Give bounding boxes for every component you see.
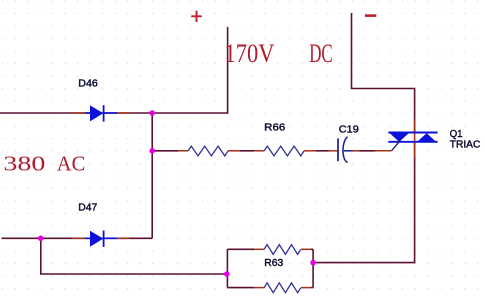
svg-text:R66: R66 <box>264 121 285 133</box>
svg-text:380: 380 <box>3 151 45 175</box>
pin lead triac middle (red) <box>414 133 416 142</box>
pin leads resistor R63 top (red) <box>254 248 264 250</box>
svg-text:TRIAC: TRIAC <box>450 138 481 150</box>
pin lead D46 anode (red) <box>72 112 85 114</box>
svg-text:D46: D46 <box>78 78 98 90</box>
diode D46 <box>85 105 117 121</box>
junction node E <box>310 260 316 266</box>
svg-text:C19: C19 <box>339 123 359 135</box>
wire: R63 right vertical <box>312 249 314 287</box>
wire: R63 bottom branch left stub <box>227 287 254 289</box>
pin lead D47 anode (red) <box>72 237 85 239</box>
resistor R63 bottom zigzag <box>264 283 301 293</box>
pin lead D47 cathode (red) <box>116 237 129 239</box>
pin lead D46 cathode (red) <box>116 112 129 114</box>
wire: AC input top row to corner under + <box>0 112 228 114</box>
wire: capacitor to triac gate corner <box>358 150 376 152</box>
wire: between series resistors <box>240 150 254 152</box>
svg-text:AC: AC <box>57 151 86 175</box>
+ terminal symbol <box>191 11 202 22</box>
capacitor C19 <box>338 137 353 163</box>
pin leads resistor R63 bottom (red) <box>254 287 264 289</box>
wire: R66 to capacitor C19 <box>316 150 330 152</box>
wire: node B down to D47 row <box>151 151 153 239</box>
resistor series (unlabeled zigzag) <box>188 146 228 156</box>
resistor R63 top zigzag <box>264 245 301 255</box>
pin leads resistor R66 (red) <box>254 150 264 152</box>
wire: R63 top branch left stub <box>227 248 254 250</box>
svg-text:D47: D47 <box>78 202 97 214</box>
wire: riser to + terminal <box>227 27 229 114</box>
junction node A <box>149 110 155 116</box>
wire: node C down then right to R63 left side <box>41 238 228 274</box>
wire: node A down to node B <box>151 113 153 151</box>
wire: R63 top branch right stub <box>311 248 313 250</box>
wire: node E right then up to triac MT1 <box>313 142 415 263</box>
junction node C <box>38 236 44 242</box>
pin leads series resistor 1 (red) <box>178 150 188 152</box>
wire: triac MT2 up, over, and up to - terminal <box>352 13 415 133</box>
triac Q1 <box>388 133 437 151</box>
wire: AC input bottom row through D47 <box>2 237 153 239</box>
svg-text:170V: 170V <box>225 39 275 68</box>
wire: R63 left vertical <box>226 249 228 287</box>
pin lead triac gate (red) <box>374 150 391 152</box>
pin leads capacitor C19 (red) <box>328 150 338 152</box>
diode D47 <box>85 231 117 247</box>
wire: gate row from node B to first resistor <box>152 150 178 152</box>
junction node B <box>149 148 155 154</box>
pin lead triac MT1 (red) <box>414 142 416 158</box>
pin lead triac MT2 (red) <box>414 119 416 133</box>
svg-text:R63: R63 <box>264 257 283 269</box>
resistor R66 <box>264 146 304 156</box>
svg-text:DC: DC <box>309 39 333 68</box>
- terminal symbol <box>365 14 376 17</box>
wire: R63 bottom branch right stub <box>311 287 313 289</box>
junction node D <box>224 271 230 277</box>
